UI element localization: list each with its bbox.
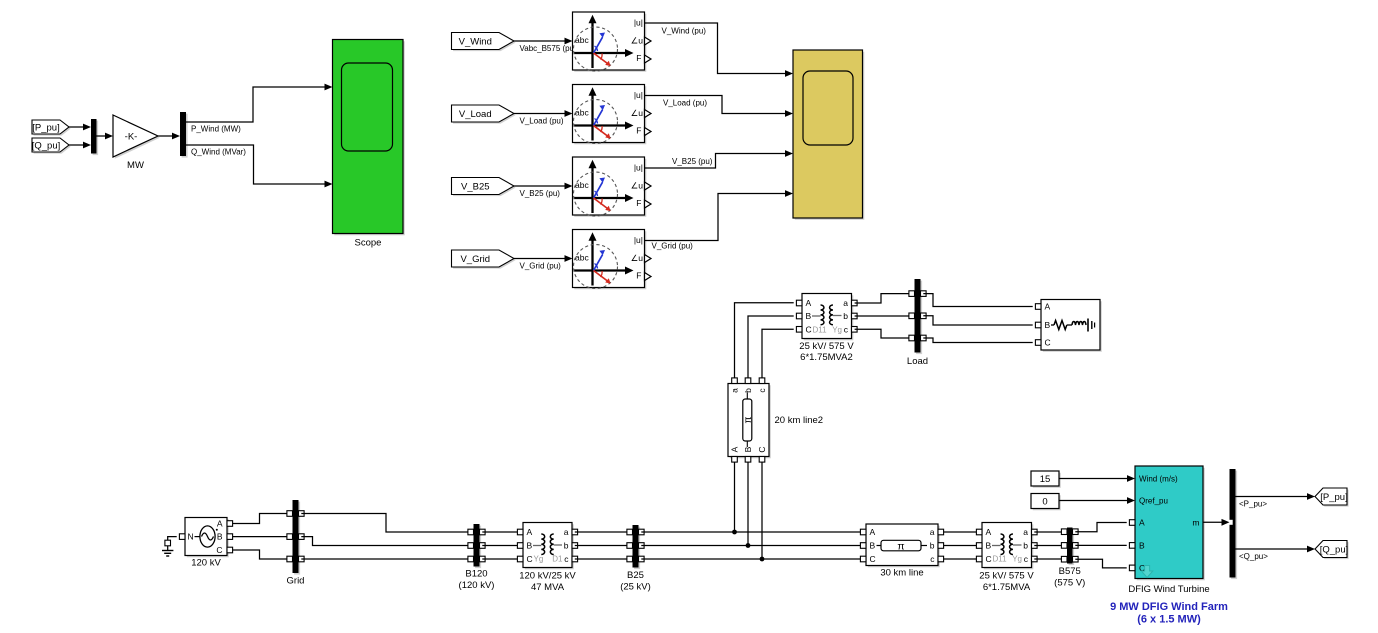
svg-text:Yg: Yg <box>832 326 842 335</box>
svg-text:D11: D11 <box>813 326 828 335</box>
svg-text:a: a <box>564 527 569 537</box>
svg-text:25 kV/ 575 V: 25 kV/ 575 V <box>799 341 854 352</box>
svg-text:Scope: Scope <box>355 237 382 248</box>
svg-text:V_Load: V_Load <box>459 109 492 120</box>
wire 20km line2 A down to node A <box>734 462 736 532</box>
Mux <box>91 119 98 155</box>
svg-text:F: F <box>636 271 641 281</box>
svg-text:B: B <box>1045 320 1051 330</box>
From tag V_Wind <box>452 33 516 52</box>
goto tag [P_pu] <box>1315 488 1349 507</box>
sequence analyzer block 1 (V_Wind) <box>573 12 652 72</box>
svg-text:V_Grid (pu): V_Grid (pu) <box>652 242 694 251</box>
svg-text:A: A <box>806 298 812 308</box>
svg-text:30 km line: 30 km line <box>880 567 923 578</box>
svg-text:|u|: |u| <box>634 90 643 100</box>
wire constant 0 to DFIG Qref <box>1059 497 1135 504</box>
svg-text:V_Grid (pu): V_Grid (pu) <box>520 261 562 270</box>
svg-text:F: F <box>636 126 641 136</box>
wire transformer3 to B575 phase y532 <box>1034 531 1064 533</box>
svg-text:B: B <box>1139 540 1145 550</box>
svg-text:20 km line2: 20 km line2 <box>775 415 824 426</box>
svg-text:V_Wind (pu): V_Wind (pu) <box>662 27 707 36</box>
wire 20km line2 a up to transformer2 A <box>735 303 794 378</box>
svg-text:B: B <box>217 532 223 542</box>
svg-text:DFIG Wind Turbine: DFIG Wind Turbine <box>1128 584 1209 595</box>
svg-text:C: C <box>1045 338 1051 348</box>
svg-text:120 kV/25 kV: 120 kV/25 kV <box>519 571 576 582</box>
wire B25 to 30 km line phase y532 <box>641 531 863 533</box>
block DFIG Wind Turbine <box>1128 466 1209 595</box>
bus B120 (120 kV) <box>459 524 495 591</box>
svg-text:π: π <box>743 416 754 423</box>
svg-text:C: C <box>870 554 876 564</box>
From tag [P_pu] <box>32 120 71 136</box>
bus B25 (25 kV) <box>620 525 651 593</box>
svg-text:B575: B575 <box>1059 566 1081 577</box>
bus Grid <box>287 500 305 587</box>
svg-text:b: b <box>564 541 569 551</box>
svg-text:∠u: ∠u <box>631 253 644 263</box>
svg-text:a: a <box>930 527 935 537</box>
svg-text:47 MVA: 47 MVA <box>531 582 565 593</box>
svg-text:V_B25: V_B25 <box>461 181 490 192</box>
svg-text:b: b <box>843 311 848 321</box>
svg-text:(120 kV): (120 kV) <box>459 580 495 591</box>
caption 9 MW DFIG Wind Farm <box>1110 601 1228 626</box>
svg-text:15: 15 <box>1040 474 1051 485</box>
wire |u| block3 to scope1 (V_B25 (pu)) <box>645 150 794 168</box>
svg-text:V_B25 (pu): V_B25 (pu) <box>520 189 561 198</box>
From tag V_Load <box>452 105 516 124</box>
svg-text:F: F <box>636 53 641 63</box>
scope1 (tan/yellow scope) <box>793 50 864 220</box>
bus Load <box>907 279 928 367</box>
goto tag [Q_pu] <box>1315 541 1349 560</box>
constant 0 <box>1031 494 1061 511</box>
wire &lt;P_pu&gt; to goto [P_pu] <box>1236 493 1316 509</box>
svg-text:[P_pu]: [P_pu] <box>32 122 59 133</box>
svg-text:6*1.75MVA: 6*1.75MVA <box>983 582 1031 593</box>
svg-text:B: B <box>870 541 876 551</box>
svg-text:B: B <box>986 541 992 551</box>
block 30 km line <box>860 524 943 578</box>
wire [Q_pu] to Mux <box>69 142 91 149</box>
svg-text:B: B <box>806 311 812 321</box>
svg-text:Qref_pu: Qref_pu <box>1139 497 1168 506</box>
wire ground to source N <box>168 537 177 541</box>
svg-text:|u|: |u| <box>634 162 643 172</box>
wire Grid A to B120 <box>301 514 470 533</box>
svg-text:D11: D11 <box>993 555 1008 564</box>
wire B25 to 30 km line phase y545.5 <box>641 545 863 547</box>
svg-text:a: a <box>730 388 740 393</box>
wire transformer2 a to Load bus <box>855 294 912 303</box>
wire Grid C to B120 <box>301 558 470 560</box>
svg-text:B: B <box>527 541 533 551</box>
transformer 120 kV/25 kV 47 MVA <box>517 523 577 593</box>
wire |u| block2 to scope1 (V_Load (pu)) <box>645 96 794 117</box>
svg-text:[Q_pu]: [Q_pu] <box>1320 544 1349 555</box>
wire transformer1 to B25 phase y559 <box>575 558 630 560</box>
svg-text:D1: D1 <box>552 555 563 564</box>
bus selector bar <box>1230 469 1238 579</box>
transformer 25 kV/575 V 6*1.75MVA <box>976 523 1037 593</box>
svg-text:P_Wind (MW): P_Wind (MW) <box>191 125 241 134</box>
wire 20km line2 C down to node C <box>761 462 763 559</box>
svg-text:N: N <box>188 532 194 542</box>
wire 30 km line to transformer3 phase y545.5 <box>944 545 980 547</box>
svg-text:V_Load (pu): V_Load (pu) <box>520 116 564 125</box>
svg-text:0: 0 <box>1042 497 1047 508</box>
svg-text:V_B25 (pu): V_B25 (pu) <box>672 157 713 166</box>
svg-text:Yg: Yg <box>534 555 544 564</box>
sequence analyzer block 2 (V_Load) <box>573 85 652 145</box>
svg-text:∠u: ∠u <box>631 108 644 118</box>
svg-text:V_Grid: V_Grid <box>460 254 490 265</box>
svg-text:b: b <box>1023 541 1028 551</box>
svg-text:[Q_pu]: [Q_pu] <box>32 140 61 151</box>
wire 30 km line to transformer3 phase y532 <box>944 531 980 533</box>
wire source A to Grid <box>233 514 291 524</box>
svg-text:|u|: |u| <box>634 17 643 27</box>
wire 20km line2 c up to transformer2 C <box>762 329 794 378</box>
wire P_Wind (MW) to Scope <box>186 84 333 134</box>
scope Scope (green) <box>333 40 405 249</box>
svg-text:C: C <box>986 554 992 564</box>
svg-text:a: a <box>843 298 848 308</box>
svg-text:Yg: Yg <box>1012 555 1022 564</box>
svg-text:Vabc_B575 (pu): Vabc_B575 (pu) <box>520 44 578 53</box>
wire B120 to transformer1 phase y545.5 <box>482 545 520 547</box>
wire B120 to transformer1 phase y559 <box>482 558 520 560</box>
svg-text:Q_Wind (MVar): Q_Wind (MVar) <box>191 148 246 157</box>
svg-text:A: A <box>217 519 223 529</box>
wire Load bus to load block C <box>923 338 1032 343</box>
svg-text:B25: B25 <box>627 570 644 581</box>
svg-text:V_Wind: V_Wind <box>459 36 492 47</box>
wire constant 15 to DFIG Wind <box>1059 475 1135 482</box>
svg-text:C: C <box>527 554 533 564</box>
svg-text:C: C <box>806 324 812 334</box>
svg-text:F: F <box>636 198 641 208</box>
gain MW (-K-) <box>113 115 160 171</box>
svg-text:∠u: ∠u <box>631 181 644 191</box>
svg-text:A: A <box>730 446 740 452</box>
sequence analyzer block 3 (V_B25) <box>573 157 652 217</box>
source 120 kV <box>179 518 232 569</box>
svg-text:<Q_pu>: <Q_pu> <box>1239 552 1268 561</box>
wire source B to Grid <box>233 536 291 538</box>
svg-text:|u|: |u| <box>634 235 643 245</box>
block 20 km line2 <box>728 378 823 462</box>
svg-text:25 kV/ 575 V: 25 kV/ 575 V <box>979 571 1034 582</box>
svg-text:B: B <box>743 446 753 452</box>
wire Q_Wind (MVar) to Scope <box>186 145 333 187</box>
svg-text:MW: MW <box>127 160 144 171</box>
svg-text:b: b <box>930 541 935 551</box>
wire 20km line2 B down to node B <box>747 462 749 546</box>
wire |u| block1 to scope1 (V_Wind (pu)) <box>645 23 794 77</box>
constant 15 <box>1031 471 1061 488</box>
wire source C to Grid <box>233 550 291 559</box>
bus B575 (575 V) <box>1054 528 1085 589</box>
Demux (bus selector) <box>180 112 188 158</box>
junction node A <box>732 530 737 535</box>
wire V_Wind to sequence analyzer (Vabc_B575 (pu)) <box>514 38 577 53</box>
svg-text:c: c <box>757 388 767 393</box>
three-phase series RLC load block <box>1035 300 1101 352</box>
svg-text:A: A <box>1139 518 1145 528</box>
wire 30 km line to transformer3 phase y559 <box>944 558 980 560</box>
svg-text:-K-: -K- <box>125 132 138 143</box>
svg-text:b: b <box>743 388 753 393</box>
From tag V_B25 <box>452 178 516 197</box>
wire V_Grid to sequence analyzer (V_Grid (pu)) <box>514 255 573 270</box>
wire B25 to 30 km line phase y559 <box>641 558 863 560</box>
wire B120 to transformer1 phase y532 <box>482 531 520 533</box>
wire V_Load to sequence analyzer (V_Load (pu)) <box>514 110 573 125</box>
svg-text:Wind (m/s): Wind (m/s) <box>1139 475 1178 484</box>
wire transformer3 to B575 phase y545.5 <box>1034 545 1064 547</box>
svg-text:(25 kV): (25 kV) <box>620 582 651 593</box>
svg-text:9 MW DFIG Wind Farm: 9 MW DFIG Wind Farm <box>1110 601 1228 613</box>
junction node B <box>746 543 751 548</box>
svg-text:[P_pu]: [P_pu] <box>1320 492 1347 503</box>
svg-text:Grid: Grid <box>287 576 305 587</box>
wire DFIG m to bus selector <box>1203 519 1230 526</box>
svg-text:π: π <box>897 540 904 552</box>
wire Gain to Demux <box>158 133 180 140</box>
svg-text:6*1.75MVA2: 6*1.75MVA2 <box>800 352 853 363</box>
transformer 25 kV/575 V 6*1.75MVA2 <box>796 294 857 363</box>
ground <box>162 540 173 556</box>
wire &lt;Q_pu&gt; to goto [Q_pu] <box>1236 546 1316 561</box>
svg-text:∠u: ∠u <box>631 36 644 46</box>
wire transformer2 c to Load bus <box>855 329 912 338</box>
svg-text:120 kV: 120 kV <box>191 557 221 568</box>
wire B575 B to DFIG <box>1075 544 1126 546</box>
svg-text:B120: B120 <box>465 569 487 580</box>
From tag V_Grid <box>452 250 516 269</box>
svg-text:C: C <box>757 446 767 452</box>
wire 20km line2 b up to transformer2 B <box>748 316 794 378</box>
wire |u| block4 to scope1 (V_Grid (pu)) <box>645 190 794 251</box>
wire [P_pu] to Mux <box>69 124 91 131</box>
wire transformer3 to B575 phase y559 <box>1034 558 1064 560</box>
From tag [Q_pu] <box>32 138 71 154</box>
wire Grid B to B120 <box>301 537 470 546</box>
sequence analyzer block 4 (V_Grid) <box>573 230 652 290</box>
wire Load bus to load block B <box>923 316 1032 325</box>
svg-text:a: a <box>1023 527 1028 537</box>
svg-text:A: A <box>1045 302 1051 312</box>
svg-text:m: m <box>1192 517 1199 527</box>
svg-text:A: A <box>527 527 533 537</box>
wire transformer1 to B25 phase y545.5 <box>575 545 630 547</box>
svg-text:A: A <box>870 527 876 537</box>
wire B575 A to DFIG <box>1075 523 1126 532</box>
svg-text:(6 x 1.5 MW): (6 x 1.5 MW) <box>1137 613 1201 625</box>
junction node C <box>760 557 765 562</box>
svg-text:V_Load (pu): V_Load (pu) <box>663 99 707 108</box>
wire Mux to Gain <box>97 133 114 140</box>
svg-text:A: A <box>986 527 992 537</box>
svg-text:(575 V): (575 V) <box>1054 578 1085 589</box>
wire V_B25 to sequence analyzer (V_B25 (pu)) <box>514 183 573 198</box>
svg-text:C: C <box>216 545 222 555</box>
wire transformer1 to B25 phase y532 <box>575 531 630 533</box>
svg-text:<P_pu>: <P_pu> <box>1239 500 1267 509</box>
wire Load bus to load block A <box>923 294 1032 307</box>
wire B575 C to DFIG <box>1075 559 1126 568</box>
wire transformer2 b to Load bus <box>855 315 912 317</box>
svg-text:Load: Load <box>907 356 928 367</box>
